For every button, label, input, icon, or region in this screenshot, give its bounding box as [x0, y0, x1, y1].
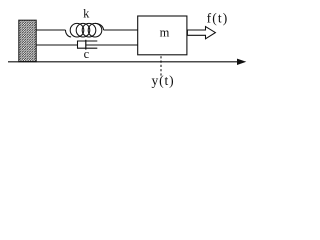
label f(t) — [207, 10, 229, 25]
displacement dashed line y(t) — [160, 56, 162, 77]
svg-text:m: m — [160, 25, 170, 39]
wire: spring rod from wall — [36, 29, 65, 31]
wire: spring rod to mass — [104, 29, 138, 31]
svg-text:y(t): y(t) — [151, 73, 174, 88]
wall fixed support (hatched post) — [19, 20, 36, 61]
label m — [160, 25, 170, 39]
label y(t) — [151, 73, 174, 88]
svg-text:k: k — [83, 7, 90, 21]
label k — [83, 7, 90, 21]
svg-text:c: c — [84, 47, 90, 61]
label c — [84, 47, 90, 61]
ground axis line — [8, 61, 239, 63]
spring k (coil) — [66, 23, 104, 37]
damper piston plate — [85, 40, 87, 50]
wire: damper rod from wall — [36, 44, 77, 46]
wire: damper rod to mass — [86, 44, 138, 46]
mass m (block) — [138, 16, 187, 55]
force arrow f(t) (hollow block arrow) — [187, 27, 215, 39]
ground axis arrowhead — [237, 59, 246, 65]
svg-text:f(t): f(t) — [207, 10, 229, 25]
damper c (dashpot cylinder) — [78, 41, 98, 49]
